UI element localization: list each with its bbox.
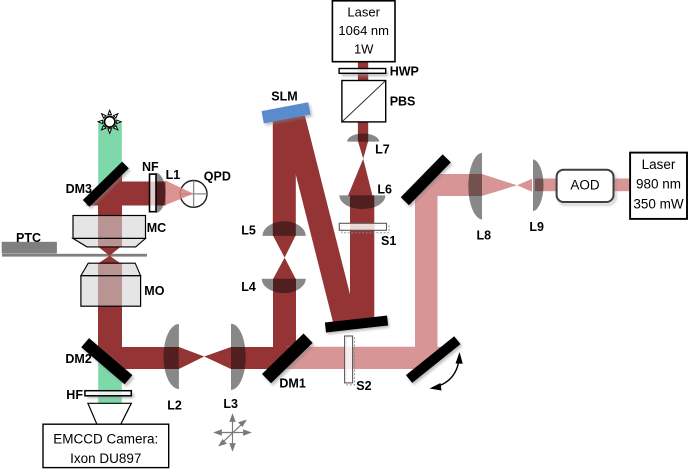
svg-text:PBS: PBS [390,95,416,109]
svg-text:AOD: AOD [570,177,600,192]
PTC stage bar [2,242,57,254]
dichroic mirror DM1 [262,334,313,384]
lens L3 [231,324,246,390]
svg-text:L5: L5 [241,224,256,238]
wire 980nm cone L9 to focus [517,179,532,192]
wire 1064nm+980nm combined beam DM2 to L2 [90,347,179,369]
svg-text:L6: L6 [377,183,392,197]
wire 1064nm beam L4 to DM1 [273,279,296,372]
svg-text:QPD: QPD [204,169,231,183]
dichroic mirror DM2 [81,338,132,384]
wire 1064nm cone focus to L6 [348,159,373,196]
wire green illumination beam (sample to camera) [98,263,122,404]
svg-text:1W: 1W [354,42,374,57]
lens L5 [262,221,305,236]
svg-text:L9: L9 [529,220,544,234]
lamp sun icon [98,110,121,133]
svg-text:PTC: PTC [16,231,41,245]
dichroic mirror DM2 shadow [83,341,134,387]
svg-text:S1: S1 [381,234,396,248]
half wave plate HWP shadow [342,72,389,77]
laser 1064 box [332,1,395,62]
lens L9 [533,159,544,211]
shutter S1 [339,223,386,230]
svg-text:NF: NF [142,160,159,174]
svg-text:L3: L3 [223,397,238,411]
QPD detector [180,181,207,208]
laser 980 box [630,153,687,219]
svg-text:350 mW: 350 mW [633,197,684,212]
svg-text:S2: S2 [356,379,371,393]
svg-text:HWP: HWP [390,65,419,79]
wire 1064nm beam DM3 down to MC [98,168,122,247]
wire 1064nm cone L5 to focus [273,235,296,257]
svg-text:1064 nm: 1064 nm [338,23,389,38]
svg-text:L7: L7 [375,143,390,157]
wire 1064nm cone L7 to focus [358,141,368,159]
sample slide [2,254,147,257]
holographic filter HF [85,391,131,396]
polarizing beam splitter PBS [342,81,386,122]
wire 980nm beam mirror to DM1 through S2 [285,347,449,369]
steering mirror M_br (bottom right, rotatable) [406,336,461,383]
svg-text:DM3: DM3 [66,182,92,196]
svg-text:L4: L4 [241,280,256,294]
wire 1064nm cone focus to L4 [273,258,296,280]
lens L1 [156,173,166,213]
condenser MC body [73,216,146,239]
lens L7 [347,134,379,142]
svg-text:980 nm: 980 nm [636,176,681,191]
AOD box [557,170,614,202]
condenser MC nose trapezoid [73,238,146,247]
AOD box shadow [559,172,616,204]
half wave plate HWP [339,69,386,74]
dichroic mirror DM1 shadow [264,336,315,386]
rotation arrow at M_br [437,361,459,387]
wire 1064nm beam DM3 to QPD detection arm [86,182,166,206]
steering mirror M_top shadow [402,157,452,208]
wire 1064nm beam MO down to DM2 [98,263,122,374]
svg-text:EMCCD Camera:: EMCCD Camera: [53,432,158,447]
svg-text:MO: MO [144,284,164,298]
wire combined beam L3 to DM1 [231,347,299,369]
steering mirror M_br shadow [408,338,463,385]
wire pink cone L1 to QPD [166,181,194,206]
wire 980nm beam laser to L9 [535,179,632,192]
steering mirror M_top (into L8) [401,154,451,205]
svg-text:L1: L1 [166,168,181,182]
svg-text:MC: MC [147,221,166,235]
svg-text:L8: L8 [477,229,492,243]
steering mirror M_N (below S1) [325,316,388,333]
wire cone L2 to focus [179,347,204,369]
holographic filter HF shadow [87,393,133,398]
EMCCD camera box [43,424,169,467]
svg-text:DM1: DM1 [279,377,305,391]
wire 1064nm cone MC to sample focus [98,247,120,256]
wire 1064nm cone sample focus to MO [98,256,120,264]
svg-text:Laser: Laser [347,5,380,20]
wire 1064nm beam SLM to L5 [273,116,296,236]
svg-text:HF: HF [66,388,83,402]
objective MO body [81,276,141,307]
wire 1064nm diagonal beam mirror to SLM [281,116,357,322]
stage translation arrows icon [215,415,250,450]
wire 980nm vertical beam between steering mirrors [415,168,438,375]
wire 1064nm beam L6 to steering mirror [350,195,374,326]
wire cone focus to L3 [204,347,231,369]
svg-text:L2: L2 [167,398,182,412]
wire 980nm beam mirror to L8 [410,174,482,196]
svg-text:SLM: SLM [271,90,297,104]
wire green illumination beam (lamp to sample) [98,122,122,247]
wire 980nm cone focus to L8 [482,174,517,196]
objective MO nose trapezoid [81,263,141,276]
svg-text:Ixon DU897: Ixon DU897 [70,451,141,466]
SLM shadow [263,104,312,125]
dichroic mirror DM3 shadow [85,164,131,209]
dichroic mirror DM3 [83,162,129,207]
svg-text:DM2: DM2 [65,352,91,366]
lens L8 [468,153,482,220]
wire 1064nm trap beam: laser to L7 [358,62,368,142]
notch filter NF [150,174,157,212]
steering mirror M_N shadow [326,318,389,335]
lens L6 [339,195,385,209]
shutter S2 shadow dashed frame [347,338,355,385]
SLM blue bar [262,102,311,123]
lens L2 [164,324,179,389]
PBS diagonal [343,81,385,121]
EMCCD camera funnel [88,403,131,424]
svg-text:Laser: Laser [642,157,676,172]
shutter S1 shadow dashed frame [342,226,389,233]
shutter S2 [345,336,353,383]
lens L4 [262,279,306,293]
